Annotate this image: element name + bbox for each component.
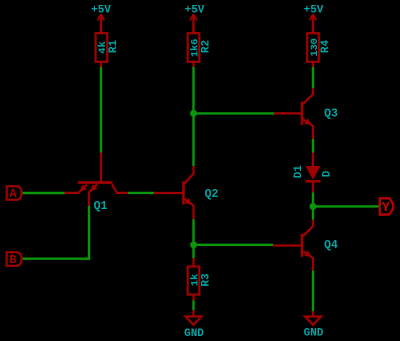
svg-text:GND: GND	[304, 328, 324, 340]
svg-text:Y: Y	[382, 201, 391, 216]
svg-text:4k: 4k	[97, 41, 109, 54]
svg-text:Q1: Q1	[94, 200, 108, 213]
svg-text:Q4: Q4	[324, 239, 338, 252]
svg-text:130: 130	[309, 38, 321, 56]
svg-text:Q2: Q2	[205, 188, 219, 201]
svg-text:R3: R3	[201, 273, 213, 287]
svg-text:+5V: +5V	[304, 5, 324, 17]
svg-text:D: D	[322, 170, 334, 177]
svg-text:B: B	[9, 253, 16, 267]
svg-text:R1: R1	[108, 40, 120, 54]
svg-text:R2: R2	[201, 40, 213, 53]
svg-text:GND: GND	[184, 328, 204, 340]
svg-text:1k: 1k	[189, 274, 201, 287]
svg-text:+5V: +5V	[91, 5, 111, 17]
svg-text:R4: R4	[320, 40, 332, 54]
svg-text:+5V: +5V	[185, 5, 205, 17]
svg-text:1k6: 1k6	[189, 39, 201, 57]
svg-text:A: A	[9, 187, 17, 201]
svg-text:D1: D1	[293, 165, 305, 179]
svg-text:Q3: Q3	[324, 107, 338, 120]
